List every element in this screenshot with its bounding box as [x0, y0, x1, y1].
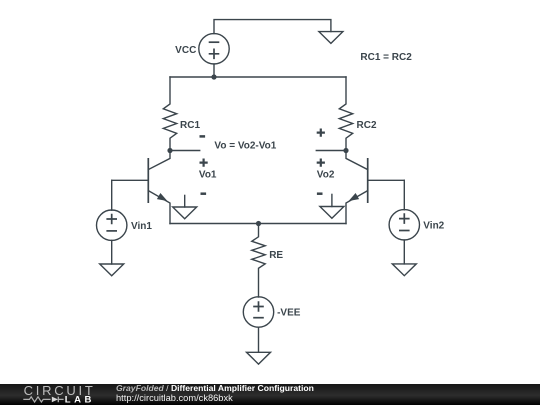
node RC2 collector junction — [343, 148, 348, 153]
resistor RC2 — [339, 77, 352, 151]
ground (Vin1) — [100, 264, 124, 276]
voltage source Vin2 — [389, 210, 419, 240]
svg-text:RC2: RC2 — [357, 120, 377, 131]
minus mark Vo1 reference — [201, 192, 207, 195]
wire Vo1 probe stub — [170, 150, 200, 152]
svg-text:-VEE: -VEE — [277, 308, 301, 319]
svg-text:Vo = Vo2-Vo1: Vo = Vo2-Vo1 — [214, 140, 276, 151]
footer bar — [0, 384, 540, 405]
node VCC rail junction — [211, 74, 216, 79]
svg-text:Vin2: Vin2 — [423, 220, 444, 231]
wire Vin1 to ground — [111, 240, 113, 264]
wire VCC top to ground — [214, 20, 331, 34]
resistor RC1 — [163, 77, 176, 151]
resistor RE — [252, 224, 265, 298]
wire Q2 base — [368, 179, 405, 181]
transistor Q2 — [346, 151, 368, 224]
plus mark Vo2 — [317, 159, 325, 167]
node RE junction — [256, 221, 261, 226]
svg-text:RC1 = RC2: RC1 = RC2 — [360, 52, 412, 63]
minus mark Vo left — [200, 135, 206, 138]
ground (Vin2) — [392, 264, 416, 276]
footer title text — [116, 383, 314, 393]
ground (top right) — [319, 32, 343, 44]
minus mark Vo2 reference — [317, 192, 323, 195]
voltage source VEE — [243, 297, 273, 327]
svg-text:Vin1: Vin1 — [131, 221, 152, 232]
CircuitLab logo — [0, 384, 110, 405]
wire Vin2 to ground — [403, 240, 405, 264]
svg-text:Vo2: Vo2 — [317, 170, 335, 181]
svg-text:LAB: LAB — [65, 395, 95, 405]
voltage source VCC — [199, 34, 229, 64]
wire Vo2 probe stub — [316, 150, 346, 152]
node RC1 collector junction — [167, 148, 172, 153]
ground (Q2 emitter) — [320, 194, 344, 218]
wire Vin2 vertical — [403, 180, 405, 210]
svg-text:VCC: VCC — [175, 45, 196, 56]
svg-text:RE: RE — [269, 250, 283, 261]
plus mark Vo right — [317, 129, 325, 137]
svg-text:RC1: RC1 — [180, 120, 200, 131]
wire Q1 base — [112, 179, 149, 181]
top rail wire — [170, 76, 346, 78]
wire VEE to ground — [258, 327, 260, 352]
ground (VEE) — [247, 352, 271, 364]
footer url text — [116, 393, 233, 403]
voltage source Vin1 — [97, 210, 127, 240]
wire VCC bottom to rail — [213, 64, 215, 77]
ground (Q1 emitter) — [173, 195, 197, 218]
plus mark Vo1 — [200, 159, 208, 167]
svg-text:Vo1: Vo1 — [199, 170, 217, 181]
bottom rail wire — [170, 223, 346, 225]
wire Vin1 vertical — [111, 180, 113, 210]
transistor Q1 — [148, 151, 170, 224]
